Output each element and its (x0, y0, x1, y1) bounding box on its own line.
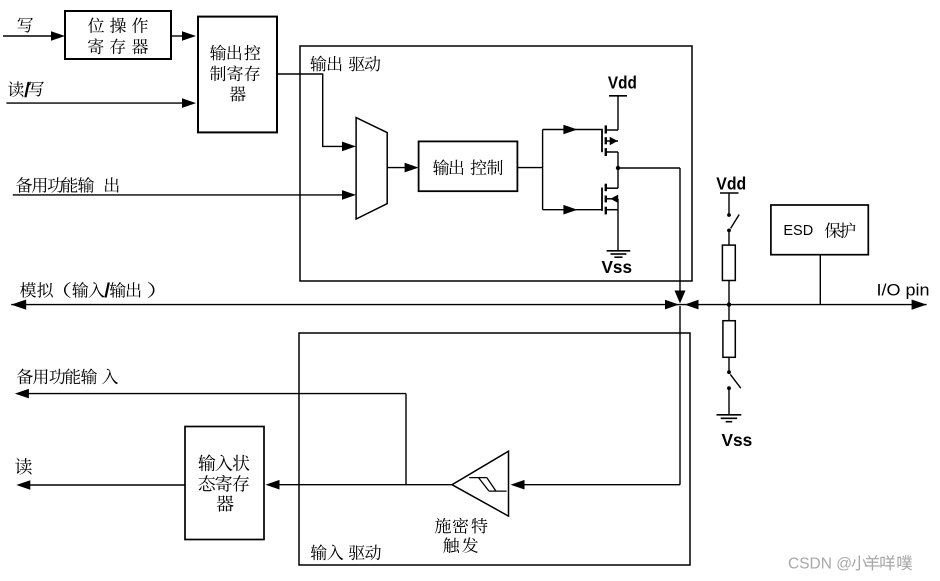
svg-text:Vdd: Vdd (608, 73, 637, 93)
transistor P-MOS (602, 125, 618, 168)
ESD protection box ESD 保护 (771, 205, 868, 255)
label 施密特 触发 (435, 518, 488, 553)
wire 读/写 read-write input (6, 98, 196, 108)
wire driver output down to I/O junction (675, 168, 686, 304)
bit-operation register box 位操作寄存器 (65, 11, 171, 59)
analog / I-O pin horizontal net 模拟 (11, 300, 926, 310)
wire 读 read output (16, 480, 185, 490)
wire to NMOS gate (543, 205, 602, 215)
wire output control register to mux (277, 74, 356, 151)
Vdd supply symbol (output stage) (609, 96, 627, 130)
svg-text:Vdd: Vdd (716, 173, 746, 193)
wire 备用功能输出 alternate function output (13, 190, 356, 200)
watermark CSDN (788, 555, 912, 572)
label 写 (18, 18, 33, 33)
svg-text:CSDN @: CSDN @ (788, 555, 852, 572)
label 读/写 (8, 81, 44, 97)
wire switch to ground (728, 388, 730, 414)
pull-down switch (727, 370, 741, 390)
wire NMOS source to ground (617, 210, 619, 251)
svg-text:I/O pin: I/O pin (877, 281, 930, 299)
wire schmitt output to input state register (266, 480, 453, 490)
wire ESD box to I/O net (819, 255, 821, 305)
pull-up switch (727, 213, 739, 232)
label 模拟（输入/输出） (20, 282, 155, 298)
node output of push-pull stage (616, 166, 680, 170)
ground symbol Vss (pull-down) (717, 415, 742, 422)
label 输入 驱动 (311, 544, 381, 560)
wire junction down to schmitt trigger (511, 306, 681, 490)
node junction pull-up on I/O net (727, 302, 731, 306)
svg-text:ESD: ESD (783, 223, 813, 239)
pull-down resistor (723, 305, 735, 373)
output control register box 输出控制寄存器 (198, 17, 277, 133)
wire to PMOS gate (543, 125, 602, 135)
output driver block box 输出驱动 (300, 46, 692, 281)
wire mux to output control (387, 163, 418, 173)
label 读 (15, 458, 32, 475)
mux selector trapezoid (356, 118, 387, 219)
Vdd supply symbol (pull-up) (720, 193, 739, 215)
output control box 输出控制 (419, 141, 518, 191)
schmitt trigger 施密特触发 (452, 451, 509, 516)
wire branch 备用功能输入 (15, 389, 406, 485)
input driver block box 输入驱动 (299, 333, 690, 565)
label 输出 驱动 (310, 56, 380, 72)
label 备用功能输入 (17, 368, 118, 384)
input state register box 输入状态寄存器 (185, 427, 264, 540)
svg-text:Vss: Vss (722, 430, 753, 450)
svg-text:Vss: Vss (602, 257, 633, 277)
wire bit-op register to output control register (171, 31, 196, 41)
wire 写 write input (3, 31, 65, 41)
pull-up resistor (722, 230, 735, 304)
wire output control to gate splitter (517, 130, 542, 210)
transistor N-MOS (602, 168, 618, 214)
label 备用功能输出 (16, 177, 119, 193)
ground symbol Vss (output stage) (607, 251, 631, 257)
